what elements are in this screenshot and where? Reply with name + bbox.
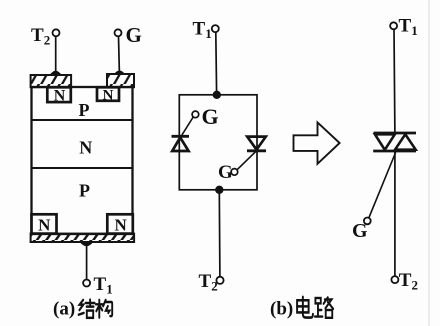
gate G circle V1 xyxy=(192,111,199,118)
svg-text:(b): (b) xyxy=(270,299,293,320)
body outline (a) structure xyxy=(32,87,133,234)
gate wire (triac) xyxy=(369,153,396,219)
char dian xyxy=(297,297,313,318)
electrode T1 hatched (bottom) xyxy=(31,234,135,242)
terminal T2 circle (triac) xyxy=(391,276,398,283)
svg-text:(a): (a) xyxy=(53,299,75,320)
N well bottom-left xyxy=(32,214,57,234)
svg-text:G: G xyxy=(352,220,368,242)
char jie xyxy=(79,300,95,318)
wire G to electrode xyxy=(118,36,121,73)
svg-text:N: N xyxy=(54,87,66,104)
gate G circle (structure) xyxy=(115,29,122,36)
gate G circle V2 xyxy=(231,169,238,176)
svg-text:P: P xyxy=(79,181,90,201)
terminal T1 circle (triac) xyxy=(390,22,397,29)
solder blob T2 electrode xyxy=(49,71,62,76)
svg-text:N: N xyxy=(38,216,51,235)
wire triac to T2 xyxy=(394,151,396,276)
svg-text:G: G xyxy=(126,23,142,47)
SCR V2 (right, cathode down) xyxy=(247,137,266,151)
solder blob T1 electrode xyxy=(80,242,93,246)
char lu xyxy=(315,297,333,317)
char gou xyxy=(96,300,112,318)
N well bottom-right xyxy=(107,214,133,234)
terminal T2 circle (circuit b) xyxy=(216,277,223,284)
layer boundary line 1 xyxy=(32,119,133,121)
svg-text:N: N xyxy=(79,138,92,158)
N well top-left xyxy=(47,87,71,104)
gate wire V2 xyxy=(237,152,256,170)
wire T1 to triac xyxy=(393,29,396,133)
svg-text:G: G xyxy=(202,104,219,129)
caption (a) jiegou xyxy=(53,299,112,320)
svg-text:P: P xyxy=(79,100,90,120)
loop rectangle wire (circuit b) xyxy=(179,95,257,190)
scan edge line right xyxy=(428,0,429,326)
wire electrode to T1 xyxy=(86,242,88,279)
block arrow xyxy=(294,122,340,163)
gate G circle (triac) xyxy=(364,218,371,225)
svg-text:G: G xyxy=(218,162,233,183)
N well top-right xyxy=(97,87,119,103)
caption (b) dianlu xyxy=(270,297,333,320)
SCR V1 (left, cathode up) xyxy=(172,136,190,151)
triac V (symbol) xyxy=(373,133,416,151)
terminal T1 circle (structure) xyxy=(83,280,90,287)
svg-text:N: N xyxy=(114,216,127,235)
junction node top xyxy=(213,91,221,99)
terminal T1 circle (circuit b) xyxy=(212,25,219,32)
terminal T2 circle (structure) xyxy=(53,29,60,36)
wire T1 to top node xyxy=(215,32,218,93)
junction node bottom xyxy=(215,186,223,194)
solder blob G electrode xyxy=(114,71,126,75)
layer boundary line 2 xyxy=(32,167,133,169)
svg-text:N: N xyxy=(103,88,114,104)
wire bottom node to T2 xyxy=(218,190,221,277)
gate wire V1 xyxy=(181,117,193,137)
electrode G hatched xyxy=(107,74,134,87)
wire T2 to electrode xyxy=(55,36,57,74)
electrode T2 hatched xyxy=(31,75,72,87)
